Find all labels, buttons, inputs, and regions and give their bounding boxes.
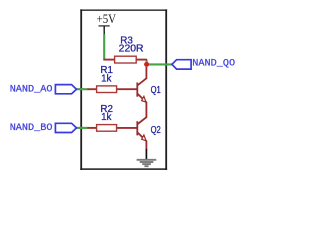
svg-text:+5V: +5V (97, 11, 117, 26)
svg-text:1k: 1k (101, 112, 111, 123)
svg-text:220R: 220R (119, 44, 144, 55)
svg-text:NAND_QO: NAND_QO (192, 59, 235, 70)
svg-text:Q1: Q1 (151, 85, 161, 96)
svg-text:Q2: Q2 (151, 125, 161, 136)
svg-text:1k: 1k (101, 73, 111, 84)
svg-text:NAND_AO: NAND_AO (10, 85, 53, 96)
svg-text:NAND_BO: NAND_BO (10, 123, 53, 134)
